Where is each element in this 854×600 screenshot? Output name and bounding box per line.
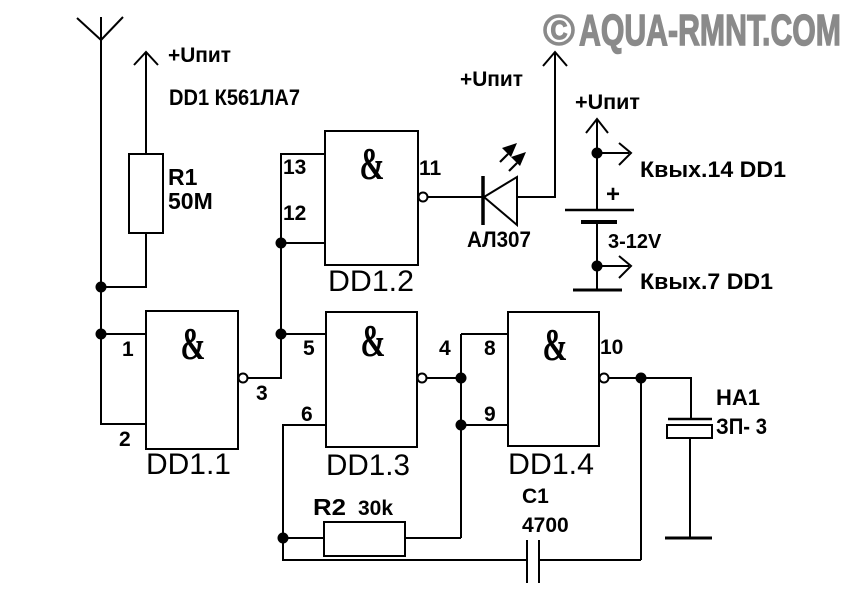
svg-text:11: 11: [419, 157, 442, 180]
svg-text:8: 8: [484, 337, 496, 360]
svg-text:30k: 30k: [358, 497, 393, 520]
svg-text:4700: 4700: [522, 514, 569, 537]
svg-text:+Uпит: +Uпит: [460, 68, 523, 91]
svg-text:+Uпит: +Uпит: [168, 44, 231, 67]
svg-text:DD1.1: DD1.1: [146, 448, 231, 481]
svg-text:12: 12: [283, 202, 306, 225]
svg-text:&: &: [181, 319, 206, 369]
svg-text:R1: R1: [168, 164, 198, 190]
svg-text:DD1 К561ЛА7: DD1 К561ЛА7: [169, 85, 300, 110]
svg-text:50M: 50M: [168, 188, 213, 214]
svg-text:R2: R2: [313, 494, 346, 520]
svg-text:&: &: [360, 139, 385, 189]
svg-text:5: 5: [303, 337, 315, 360]
svg-text:4: 4: [439, 337, 451, 360]
svg-text:DD1.4: DD1.4: [508, 448, 594, 481]
svg-text:+: +: [606, 181, 620, 208]
svg-text:9: 9: [484, 403, 496, 426]
svg-text:AQUA-RMNT.COM: AQUA-RMNT.COM: [579, 6, 841, 55]
svg-text:C1: C1: [522, 485, 549, 508]
svg-text:Квых.7 DD1: Квых.7 DD1: [640, 269, 773, 294]
svg-text:3-12V: 3-12V: [608, 231, 662, 253]
svg-text:3: 3: [256, 382, 268, 405]
svg-text:&: &: [361, 316, 386, 366]
svg-text:10: 10: [600, 336, 623, 359]
svg-text:13: 13: [283, 156, 306, 179]
svg-text:DD1.3: DD1.3: [326, 449, 410, 482]
svg-text:АЛ307: АЛ307: [467, 227, 531, 252]
svg-text:1: 1: [122, 338, 134, 361]
svg-text:C: C: [551, 15, 568, 45]
svg-text:&: &: [543, 320, 568, 370]
svg-text:DD1.2: DD1.2: [328, 265, 414, 298]
svg-text:HA1: HA1: [716, 385, 760, 410]
svg-text:6: 6: [301, 403, 313, 426]
svg-text:ЗП- 3: ЗП- 3: [716, 414, 767, 439]
svg-text:Квых.14 DD1: Квых.14 DD1: [640, 157, 786, 182]
svg-text:+Uпит: +Uпит: [575, 91, 640, 114]
svg-text:2: 2: [119, 428, 131, 451]
